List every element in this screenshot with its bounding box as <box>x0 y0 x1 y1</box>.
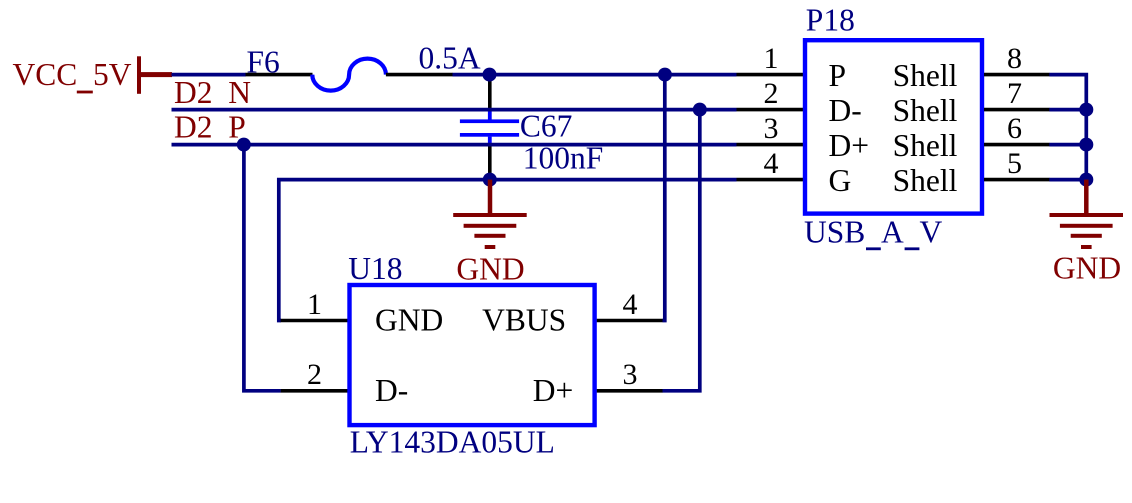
svg-text:4: 4 <box>623 288 638 321</box>
wire pin 6 to shell bus <box>1049 143 1086 147</box>
wire U18 pin 1 <box>281 319 348 323</box>
connector P18 pin 8 wire <box>984 73 1050 77</box>
junction at VBUS drop <box>658 68 672 82</box>
capacitor C67 <box>460 75 519 176</box>
net label D2_N <box>174 75 251 110</box>
wire VBUS riser to row 1 <box>663 75 665 321</box>
svg-text:8: 8 <box>1007 42 1022 75</box>
wire U18 pin 3 <box>597 389 663 393</box>
connector P18 pin 1 wire <box>737 73 804 77</box>
wire pin 5 to shell bus <box>1049 178 1086 182</box>
svg-text:G: G <box>829 163 852 198</box>
wire D2_P drop to U18 pin 2 <box>244 145 281 391</box>
connector P18 pin 2 wire <box>737 108 804 112</box>
ground symbol (right) <box>1050 180 1124 249</box>
svg-text:3: 3 <box>764 112 779 145</box>
junction at D2_P drop to U18 pin 2 <box>237 138 251 152</box>
svg-text:5: 5 <box>1007 147 1022 180</box>
fuse F6 <box>246 59 453 91</box>
power port VCC_5V label <box>13 57 132 94</box>
svg-text:0.5A: 0.5A <box>419 40 481 75</box>
svg-text:A: A <box>881 215 904 250</box>
svg-text:D2: D2 <box>174 75 213 110</box>
wire GND net horizontal row <box>277 178 737 182</box>
svg-text:USB: USB <box>804 215 865 250</box>
svg-text:GND: GND <box>375 303 443 338</box>
svg-text:5V: 5V <box>93 57 132 92</box>
connector P18 pin 5 wire <box>984 178 1050 182</box>
wire net D2_N <box>172 108 737 112</box>
svg-text:D2: D2 <box>174 110 213 145</box>
svg-text:GND: GND <box>456 251 524 286</box>
IC U18 box <box>350 285 595 425</box>
svg-text:1: 1 <box>764 42 779 75</box>
svg-text:4: 4 <box>764 147 779 180</box>
wire GND net drop to U18 pin 1 <box>279 178 281 321</box>
wire fuse to P18 pin 1 (net VCC_5V) <box>453 73 737 77</box>
svg-text:VCC: VCC <box>13 57 78 92</box>
svg-text:LY143DA05UL: LY143DA05UL <box>350 424 555 459</box>
svg-text:VBUS: VBUS <box>482 303 566 338</box>
wire D+ riser to row 2 <box>663 110 700 391</box>
svg-text:D-: D- <box>375 373 408 408</box>
wire U18 pin 4 <box>597 319 663 323</box>
svg-text:Shell: Shell <box>893 128 958 163</box>
svg-text:F6: F6 <box>247 45 280 80</box>
wire U18 pin 2 <box>281 389 348 393</box>
svg-text:3: 3 <box>623 358 638 391</box>
svg-text:7: 7 <box>1007 77 1022 110</box>
connector P18 pin 7 wire <box>984 108 1050 112</box>
junction at D+ drop <box>693 103 707 117</box>
junction shell bus pin 6 <box>1079 138 1093 152</box>
svg-text:P: P <box>829 58 847 93</box>
junction at capacitor bottom / GND <box>483 173 497 187</box>
svg-text:1: 1 <box>307 288 322 321</box>
svg-text:D-: D- <box>829 93 862 128</box>
wire VCC_5V to fuse <box>172 73 246 77</box>
svg-text:D+: D+ <box>533 373 574 408</box>
wire shell bus riser (right) <box>1049 75 1086 180</box>
power port VCC_5V bar symbol <box>137 56 172 94</box>
svg-text:Shell: Shell <box>893 163 958 198</box>
connector P18 pin 4 wire <box>737 178 804 182</box>
svg-text:2: 2 <box>764 77 779 110</box>
junction shell bus pin 5 <box>1079 173 1093 187</box>
svg-text:U18: U18 <box>348 251 402 286</box>
svg-text:Shell: Shell <box>893 58 958 93</box>
wire pin 7 to shell bus <box>1049 108 1086 112</box>
svg-text:6: 6 <box>1007 112 1022 145</box>
junction shell bus pin 7 <box>1079 103 1093 117</box>
svg-text:GND: GND <box>1053 251 1121 286</box>
connector P18 box <box>805 40 982 213</box>
svg-text:Shell: Shell <box>893 93 958 128</box>
svg-text:2: 2 <box>307 358 322 391</box>
connector P18 pin 3 wire <box>737 143 804 147</box>
svg-text:C67: C67 <box>520 108 573 143</box>
svg-text:N: N <box>228 75 251 110</box>
svg-text:P18: P18 <box>806 3 855 38</box>
svg-text:D+: D+ <box>829 128 870 163</box>
net label D2_P <box>174 110 246 145</box>
svg-text:V: V <box>920 215 943 250</box>
connector P18 pin 6 wire <box>984 143 1050 147</box>
connector P18 type label USB_A_V <box>804 215 943 251</box>
ground symbol (middle) <box>453 180 527 249</box>
junction at capacitor top <box>483 68 497 82</box>
wire net D2_P <box>172 143 737 147</box>
